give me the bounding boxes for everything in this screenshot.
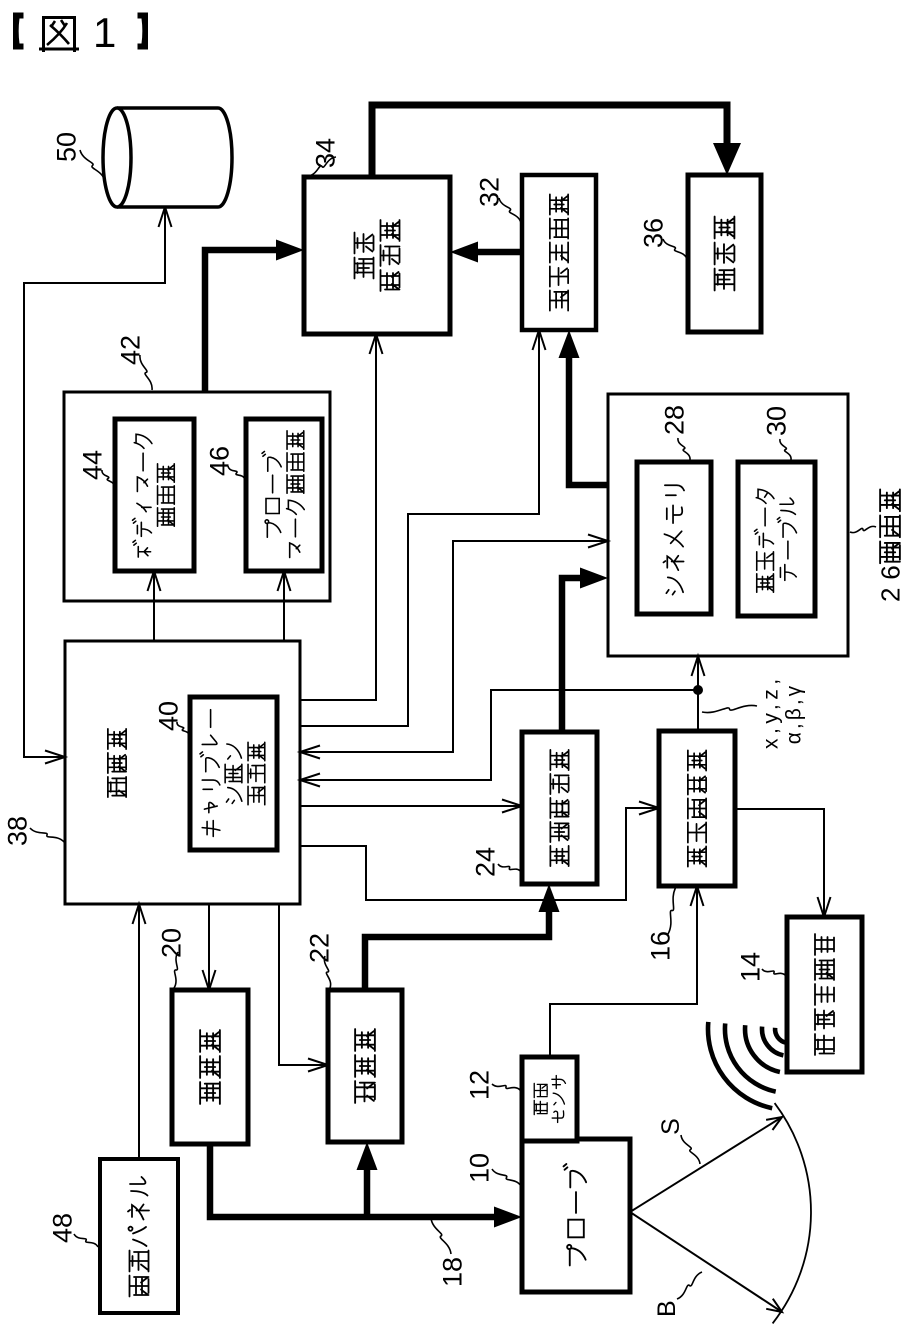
svg-text:16: 16 bbox=[646, 931, 676, 961]
label 30 bbox=[762, 406, 792, 460]
label 38 bbox=[3, 816, 64, 846]
svg-text:44: 44 bbox=[78, 450, 108, 480]
label 28 bbox=[660, 405, 690, 460]
storage cylinder 50 bbox=[103, 108, 232, 207]
label 16 bbox=[646, 887, 676, 961]
svg-text:24: 24 bbox=[471, 847, 501, 877]
label 50 bbox=[52, 132, 105, 181]
wire: graphics generator to display processor (thick) bbox=[205, 240, 304, 393]
svg-text:10: 10 bbox=[465, 1153, 495, 1183]
label 20 bbox=[157, 928, 187, 988]
label 42 bbox=[116, 335, 152, 390]
wire: control/memory bidirectional bbox=[300, 535, 608, 759]
label 26 memory bbox=[850, 489, 901, 602]
block 10 probe bbox=[522, 1139, 630, 1292]
wire: memory to image former (thick) bbox=[559, 330, 609, 485]
block 30 coordinate data table bbox=[738, 462, 815, 616]
svg-text:14: 14 bbox=[736, 952, 766, 982]
label 18 bbox=[431, 1218, 468, 1287]
wire: control to bodymark generator bbox=[148, 571, 161, 641]
block 12 magnetic sensor bbox=[522, 1057, 577, 1141]
wire: receiver to signal processor (thick) bbox=[365, 884, 560, 990]
magnetic field arcs bbox=[708, 1022, 786, 1108]
label 48 bbox=[48, 1213, 98, 1247]
wire: control to signal processor bbox=[300, 800, 522, 813]
wire: coordinate data to control bbox=[300, 690, 698, 787]
block 36 display bbox=[688, 175, 761, 332]
svg-text:20: 20 bbox=[157, 928, 187, 958]
label 10 bbox=[465, 1153, 521, 1186]
svg-text:1: 1 bbox=[93, 9, 116, 56]
label 44 bbox=[78, 450, 114, 487]
block 32 image former bbox=[522, 175, 596, 330]
label 34 bbox=[308, 138, 341, 176]
block 26 memory group bbox=[608, 394, 848, 656]
label 36 bbox=[639, 218, 687, 259]
block 14 magnetic field generator bbox=[787, 917, 862, 1072]
svg-text:28: 28 bbox=[660, 405, 690, 435]
block 40 calibration executor bbox=[190, 697, 277, 850]
figure header 【図 1】 bbox=[13, 9, 148, 56]
svg-text:48: 48 bbox=[48, 1213, 78, 1243]
label B bbox=[653, 1272, 702, 1317]
svg-text:38: 38 bbox=[3, 816, 33, 846]
wire: control to transmitter bbox=[203, 904, 216, 990]
block 48 operation panel bbox=[100, 1159, 178, 1313]
block 22 receiver bbox=[328, 990, 402, 1142]
wire: control to display processor bbox=[300, 334, 383, 700]
label x,y,z alpha,beta,gamma bbox=[702, 679, 806, 749]
label 24 bbox=[471, 847, 521, 877]
svg-text:22: 22 bbox=[305, 933, 335, 963]
wire: control to operation panel riser bbox=[133, 904, 146, 1159]
block 20 transmitter bbox=[172, 990, 248, 1144]
block 44 body-mark generator bbox=[115, 419, 194, 571]
block 34 display processor bbox=[304, 177, 450, 334]
svg-text:x,y,z,: x,y,z, bbox=[760, 679, 783, 749]
label 12 bbox=[465, 1070, 520, 1100]
label 46 bbox=[205, 446, 245, 480]
svg-text:32: 32 bbox=[475, 177, 505, 207]
wire: coordinate calculator to field generator bbox=[735, 809, 831, 917]
svg-text:26: 26 bbox=[875, 565, 901, 602]
svg-text:50: 50 bbox=[52, 132, 82, 162]
wire: control to coordinate calculator bbox=[300, 802, 659, 901]
svg-text:18: 18 bbox=[438, 1257, 468, 1287]
svg-text:12: 12 bbox=[465, 1070, 495, 1100]
svg-text:30: 30 bbox=[762, 406, 792, 436]
label 40 bbox=[154, 701, 189, 736]
label 32 bbox=[475, 177, 521, 223]
block 42 graphics generator group bbox=[64, 392, 330, 601]
wire: magnetic sensor to coordinate calculator bbox=[550, 886, 704, 1057]
svg-text:α,β,γ: α,β,γ bbox=[783, 685, 806, 744]
block 38 control bbox=[65, 641, 300, 904]
block 24 signal processor bbox=[522, 732, 597, 884]
wire: control to receiver bbox=[279, 904, 328, 1072]
block 16 coordinate calculator bbox=[659, 731, 735, 886]
control label text 制御部 bbox=[108, 729, 126, 797]
wire 18: transmitter to probe with receiver branch (thick) bbox=[210, 1142, 522, 1228]
block 28 cine memory bbox=[637, 462, 711, 614]
svg-text:S: S bbox=[657, 1118, 685, 1135]
svg-text:46: 46 bbox=[205, 446, 235, 476]
label 14 bbox=[736, 952, 786, 982]
wire: signal processor to memory (thick) bbox=[562, 568, 608, 733]
wire: control to probemark generator bbox=[278, 571, 291, 641]
wire: image former to display processor (thick) bbox=[450, 242, 522, 263]
block 46 probe-mark generator bbox=[246, 419, 322, 571]
svg-text:B: B bbox=[653, 1300, 681, 1317]
label S bbox=[657, 1118, 700, 1164]
wire: control/cine-memory store bidirectional bbox=[24, 207, 172, 764]
ultrasound beam sector S/B bbox=[630, 1103, 811, 1323]
svg-text:36: 36 bbox=[639, 218, 669, 248]
wire: display processor to display (thick) bbox=[372, 105, 741, 177]
wire: coordinate output node to memory bbox=[692, 656, 705, 731]
label 22 bbox=[305, 933, 335, 988]
wire: control to image former bbox=[300, 330, 546, 726]
